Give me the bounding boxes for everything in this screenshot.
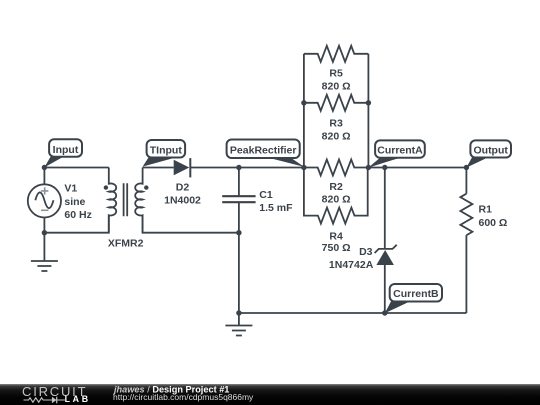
node CurrentA junction xyxy=(366,165,371,170)
wire C1 bottom lead down to ground node xyxy=(238,202,240,313)
node CurrentB junction xyxy=(382,310,387,315)
wire left rail of resistor bank xyxy=(303,54,305,168)
svg-text:820 Ω: 820 Ω xyxy=(322,81,351,93)
svg-text:Input: Input xyxy=(53,144,79,156)
transformer phase dot secondary xyxy=(144,185,148,189)
svg-text:V1: V1 xyxy=(64,183,77,195)
wire V1 top lead xyxy=(43,168,45,185)
svg-text:CurrentB: CurrentB xyxy=(393,288,439,300)
junction V1 bottom xyxy=(42,230,47,235)
wire right rail of resistor bank xyxy=(367,54,369,168)
svg-text:1N4742A: 1N4742A xyxy=(329,259,374,271)
wire V1 bottom lead xyxy=(43,218,45,233)
footer bar xyxy=(0,384,540,405)
svg-text:TInput: TInput xyxy=(150,144,183,156)
node PeakRectifier junction xyxy=(301,165,306,170)
V1 minus sign xyxy=(41,209,48,211)
svg-text:750 Ω: 750 Ω xyxy=(322,242,351,254)
junction C1 bottom xyxy=(236,230,241,235)
svg-text:R1: R1 xyxy=(479,204,493,216)
svg-text:C1: C1 xyxy=(259,189,273,201)
CircuitLab logo squiggle xyxy=(24,398,65,402)
ground symbol middle xyxy=(225,326,252,336)
V1 sine symbol xyxy=(35,192,53,208)
ground symbol left xyxy=(31,261,58,271)
resistor R3 xyxy=(304,95,369,111)
svg-text:D2: D2 xyxy=(176,182,190,194)
junction right rail R3 row xyxy=(366,100,371,105)
node flag PeakRectifier xyxy=(227,140,305,167)
svg-text:820 Ω: 820 Ω xyxy=(322,131,351,143)
voltage source V1 circle xyxy=(28,184,61,217)
V1 plus sign xyxy=(41,187,48,194)
junction D3 branch at main rail xyxy=(382,165,387,170)
junction left rail R3 row xyxy=(301,100,306,105)
node flag TInput xyxy=(143,140,186,167)
svg-text:60 Hz: 60 Hz xyxy=(64,209,91,221)
svg-text:sine: sine xyxy=(64,196,85,208)
wire bottom left to transformer primary xyxy=(44,215,108,233)
wire from transformer secondary to D2 anode xyxy=(143,167,174,169)
svg-text:R2: R2 xyxy=(329,181,343,193)
capacitor C1 plates xyxy=(222,196,255,202)
wire D3 branch top xyxy=(384,168,386,249)
svg-text:XFMR2: XFMR2 xyxy=(108,237,144,249)
wire ground stub middle xyxy=(238,313,240,326)
node flag CurrentB xyxy=(385,284,442,313)
zener diode D3 bar xyxy=(375,245,397,253)
resistor R1 xyxy=(460,194,472,236)
svg-text:1N4002: 1N4002 xyxy=(164,194,201,206)
svg-text:1.5 mF: 1.5 mF xyxy=(259,202,293,214)
svg-text:820 Ω: 820 Ω xyxy=(322,193,351,205)
transformer phase dot primary xyxy=(104,185,108,189)
node Output junction xyxy=(464,165,469,170)
wire main top rail xyxy=(44,167,108,169)
wire output branch top xyxy=(465,168,467,194)
svg-text:PeakRectifier: PeakRectifier xyxy=(230,144,297,156)
transformer core lines xyxy=(124,183,128,216)
svg-text:LAB: LAB xyxy=(65,394,91,404)
resistor R5 xyxy=(304,46,369,62)
svg-text:600 Ω: 600 Ω xyxy=(479,217,508,229)
resistor R4 with branch wires xyxy=(304,168,368,224)
svg-text:http://circuitlab.com/cdpmus5q: http://circuitlab.com/cdpmus5q866my xyxy=(113,392,254,402)
svg-text:R4: R4 xyxy=(329,230,343,242)
svg-text:CurrentA: CurrentA xyxy=(377,144,423,156)
wire from D2 cathode to C1 node to left rail xyxy=(190,167,304,169)
resistor R2 xyxy=(304,160,369,176)
wire bottom rail xyxy=(239,312,467,314)
zener diode D3 triangle xyxy=(376,250,394,265)
wire D3 branch bottom xyxy=(384,265,386,313)
svg-text:D3: D3 xyxy=(359,246,373,258)
wire main rail from right rail node to D3 node to output corner xyxy=(368,167,466,169)
diode D2 xyxy=(174,160,190,176)
junction C1 top at main rail xyxy=(236,165,241,170)
transformer XFMR2 secondary coil xyxy=(135,168,142,233)
node Input junction xyxy=(42,165,47,170)
svg-text:R3: R3 xyxy=(329,118,343,130)
node flag CurrentA xyxy=(368,140,424,167)
node flag Output xyxy=(466,140,511,167)
svg-text:Output: Output xyxy=(473,144,508,156)
junction ground node xyxy=(236,310,241,315)
node flag Input xyxy=(44,139,82,167)
svg-text:R5: R5 xyxy=(329,68,343,80)
transformer XFMR2 primary coil xyxy=(109,168,116,233)
wire C1 top lead xyxy=(238,168,240,197)
wire output branch bottom xyxy=(465,235,467,313)
wire transformer secondary bottom lead xyxy=(143,215,239,233)
wire ground stub left xyxy=(43,233,45,261)
